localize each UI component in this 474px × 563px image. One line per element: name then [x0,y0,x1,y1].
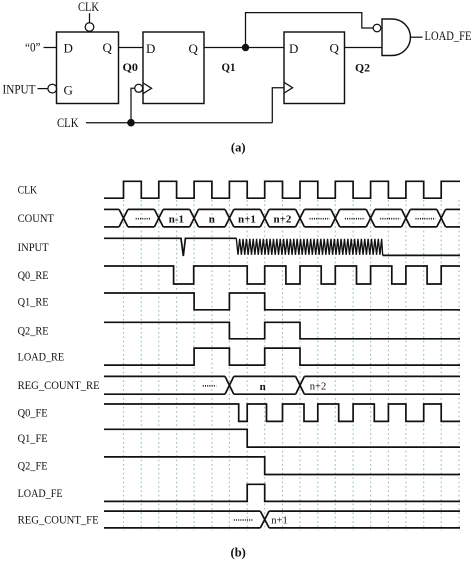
waveform REG_COUNT_RE bus [104,376,460,394]
waveform COUNT bus [104,209,460,227]
svg-text:INPUT: INPUT [3,83,36,97]
svg-text:n+2: n+2 [273,214,291,226]
bus value dots (REG_COUNT_FE) [234,519,253,521]
waveform REG_COUNT_FE bus [104,511,460,528]
wire Q1: U2 Q to U3 D [204,47,284,49]
inversion bubble on U1 top clock input [85,23,94,32]
waveform Q1_RE [104,293,460,310]
waveform Q0_FE [104,404,460,421]
wire CLK bottom bus [86,122,272,124]
svg-text:n+2: n+2 [310,382,326,393]
svg-text:n-1: n-1 [169,214,184,226]
waveform Q2_FE [104,457,460,475]
svg-text:n+1: n+1 [238,214,256,226]
svg-text:CLK: CLK [57,116,79,130]
edge-triangle on U3 clock input [284,82,293,93]
svg-text:G: G [64,83,73,98]
waveform INPUT high segment with glitch [104,238,237,256]
svg-text:Q1_FE: Q1_FE [18,432,48,445]
svg-text:n+1: n+1 [271,516,287,527]
svg-text:D: D [146,41,155,56]
svg-text:Q1: Q1 [222,60,236,74]
svg-text:REG_COUNT_FE: REG_COUNT_FE [18,513,99,526]
svg-text:Q: Q [103,40,113,55]
svg-text:LOAD_FE: LOAD_FE [425,29,472,43]
wire Q0: U1 Q to U2 D [119,47,144,49]
svg-text:D: D [289,41,298,56]
wire CLK-top stub to latch U1 clock bubble [89,13,91,22]
svg-text:Q1_RE: Q1_RE [18,295,49,308]
svg-text:Q: Q [330,41,340,56]
bus value dots (COUNT seg9) [416,218,436,220]
svg-text:Q: Q [189,41,199,56]
svg-text:CLK: CLK [78,0,99,14]
svg-text:LOAD_FE: LOAD_FE [18,487,63,500]
junction dot node Q1 [242,44,249,51]
bus value dots (COUNT seg7) [345,218,365,220]
svg-text:REG_COUNT_RE: REG_COUNT_RE [18,379,100,392]
svg-text:Q2_FE: Q2_FE [18,460,48,473]
svg-text:“0”: “0” [25,41,41,55]
svg-text:n: n [209,214,215,226]
waveform Q0_RE [104,266,460,284]
AND gate G1 [382,19,410,56]
inversion bubble on U1 G input [48,84,57,93]
svg-text:n: n [260,381,266,393]
inversion bubble on U2 clock input [135,84,143,92]
wire G1 output to LOAD_FE [411,36,423,38]
waveform CLK [104,181,460,198]
svg-text:LOAD_RE: LOAD_RE [18,351,65,364]
waveform Q2_RE [104,322,460,339]
latch U1 body [57,32,119,104]
clock-edge guide grid (dashed) [124,200,460,531]
flip-flop U3 body [284,32,345,104]
bus value dots (REG_COUNT_RE) [203,385,216,387]
svg-text:INPUT: INPUT [18,241,49,254]
waveform INPUT async oscillation burst [236,238,382,255]
edge-triangle on U2 clock input [143,83,152,94]
svg-text:COUNT: COUNT [18,212,54,225]
waveform LOAD_RE [104,348,460,365]
wire CLK riser to U2 clock bubble [131,88,135,122]
svg-text:Q2: Q2 [355,61,370,75]
waveform Q1_FE [104,429,460,447]
wire Q1 feedback to gate G1 inverted input [246,13,374,48]
bus value dots (COUNT seg1) [136,218,151,220]
waveform INPUT low tail [383,254,460,256]
svg-text:D: D [64,41,73,56]
svg-text:Q0: Q0 [123,60,139,74]
inversion bubble on G1 top input [373,24,381,32]
wire CLK riser to U3 clock [272,88,284,123]
wire "0" to U1 D input [44,47,57,49]
svg-text:Q2_RE: Q2_RE [18,324,49,337]
svg-text:Q0_FE: Q0_FE [18,407,48,420]
bus value dots (COUNT seg6) [310,218,330,220]
wire Q2: U3 Q to gate G1 [345,47,383,49]
waveform LOAD_FE [104,484,460,501]
junction dot CLK at U2 riser [127,119,135,127]
flip-flop U2 body [143,32,204,104]
bus value dots (COUNT seg8) [380,218,400,220]
svg-text:CLK: CLK [18,184,38,197]
svg-text:(b): (b) [231,546,246,560]
svg-text:Q0_RE: Q0_RE [18,269,49,282]
svg-text:(a): (a) [231,141,246,155]
wire INPUT to U1 G bubble [38,88,48,90]
